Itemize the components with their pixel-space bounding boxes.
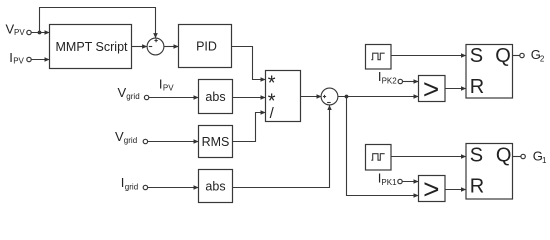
comparator lower [419, 174, 446, 205]
input terminal V_PV [6, 22, 32, 38]
wire V_PV to MMPT Script [31, 32, 49, 34]
wire abs upper to product block input 2 [233, 97, 266, 99]
svg-text:abs: abs [205, 90, 225, 104]
svg-text:PV: PV [163, 84, 174, 93]
block PID [179, 25, 232, 68]
block product (multiply multiply divide) [266, 71, 301, 123]
svg-text:MMPT Script: MMPT Script [56, 40, 129, 54]
node junction after S2 [345, 95, 349, 99]
svg-text:PK1: PK1 [381, 178, 397, 187]
wire S1 to PID [164, 46, 179, 48]
wire pulse lower to latch S input [391, 156, 466, 158]
svg-text:PV: PV [13, 57, 24, 66]
node junction on V_PV wire [38, 31, 42, 35]
wire branch junction down to comparator lower [347, 97, 419, 196]
svg-text:>: > [423, 174, 439, 205]
svg-text:S: S [470, 145, 483, 167]
wire S2 to comparator upper [338, 96, 419, 98]
input terminal I_grid [121, 175, 148, 191]
input terminal I_PV [9, 50, 31, 66]
wire PID to product block input 1 [232, 47, 266, 80]
svg-text:PV: PV [14, 28, 25, 37]
input terminal I_PK1 [378, 170, 402, 187]
svg-text:V: V [118, 85, 127, 100]
wire abs lower to summing junction S2 bottom [233, 105, 330, 187]
wire V_grid to abs (upper) [149, 97, 199, 99]
wire pulse upper to latch S input [391, 55, 466, 57]
svg-text:2: 2 [540, 55, 545, 64]
wire RMS to product block input 3 [233, 113, 266, 142]
wire I_PK2 to comparator upper [403, 81, 419, 83]
wire V_grid to RMS [148, 141, 199, 143]
node label I_PV on abs input wire [159, 76, 174, 92]
wire MMPT Script to summing junction S1 [132, 46, 148, 48]
svg-text:PK2: PK2 [382, 76, 398, 85]
svg-text:grid: grid [126, 92, 139, 101]
comparator upper [419, 74, 446, 105]
svg-text:1: 1 [542, 156, 547, 165]
wire latch upper Q to G_2 terminal [513, 55, 520, 57]
svg-text:Q: Q [496, 145, 512, 167]
block MMPT Script [50, 25, 132, 69]
wire comparator upper to latch R input [445, 88, 466, 90]
svg-text:grid: grid [124, 136, 137, 145]
block pulse generator upper [366, 45, 392, 70]
output terminal G_1 [521, 148, 547, 165]
output terminal G_2 [520, 47, 545, 64]
SR latch upper (U_G2) [466, 45, 513, 99]
input terminal I_PK2 [378, 69, 403, 86]
svg-text:R: R [470, 176, 484, 198]
input terminal V_grid (row 2) [118, 85, 149, 101]
wire I_PV to MMPT Script [31, 59, 49, 61]
wire product to summing junction S2 [301, 96, 322, 98]
block abs (lower) [199, 170, 233, 203]
svg-text:V: V [115, 129, 124, 144]
input terminal V_grid (row 3) [115, 129, 148, 145]
block RMS [199, 126, 233, 158]
wire comparator lower to latch R input [445, 189, 466, 191]
SR latch lower (U_G1) [466, 144, 513, 200]
summing junction S1 [147, 38, 164, 55]
block abs (upper) [199, 80, 233, 114]
svg-text:RMS: RMS [202, 135, 230, 149]
wire I_grid to abs (lower) [148, 187, 199, 189]
wire feedback V_PV to summing junction S1 top [40, 8, 156, 39]
svg-text:R: R [470, 76, 484, 98]
svg-text:PID: PID [196, 40, 217, 54]
wire I_PK1 to comparator lower [402, 181, 418, 183]
svg-text:S: S [470, 45, 483, 67]
wire latch lower Q to G_1 terminal [513, 156, 521, 158]
block pulse generator lower [366, 145, 392, 171]
svg-text:>: > [423, 74, 439, 105]
summing junction S2 [321, 88, 338, 105]
svg-text:grid: grid [125, 183, 138, 192]
svg-text:Q: Q [495, 45, 511, 67]
svg-text:abs: abs [205, 179, 225, 193]
